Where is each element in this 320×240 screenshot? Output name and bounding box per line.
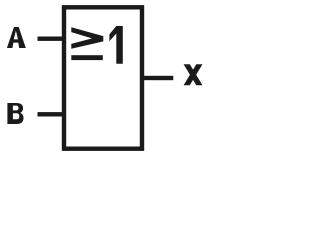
OR gate U1 (IEC box symbol): [64, 7, 142, 148]
label >=1 : chevron of greater-equal: [71, 27, 103, 49]
wire input B: [38, 112, 66, 116]
node X: [184, 64, 203, 85]
wire output X: [140, 76, 173, 80]
label >=1 : underline bar of greater-equal: [71, 55, 103, 60]
node B: [7, 103, 23, 124]
wire input A: [38, 37, 66, 41]
node A: [7, 27, 26, 48]
label >=1 : digit 1: [109, 26, 122, 64]
